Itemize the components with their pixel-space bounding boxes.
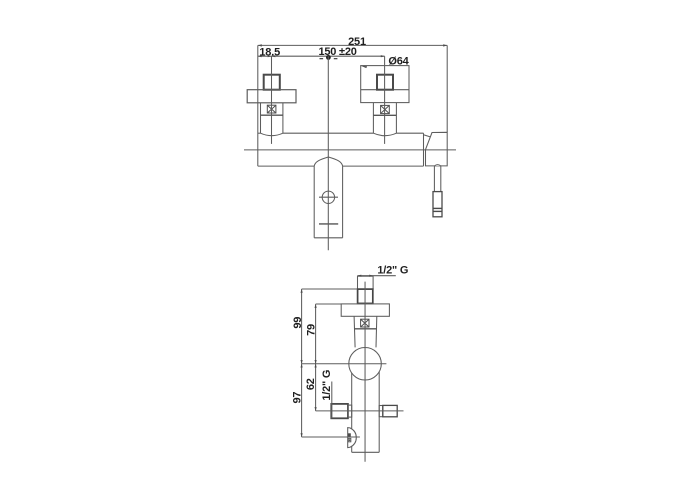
wall flange thick: [358, 289, 373, 303]
right outlet connector: [379, 406, 383, 417]
bar body (mixer horizontal body): [258, 45, 424, 166]
spout diverter circle: [322, 191, 334, 203]
outlet centerline: [316, 410, 404, 412]
dim 99: [301, 289, 358, 364]
side vertical centerline: [364, 282, 366, 462]
left handle body: [261, 103, 283, 136]
diverter crosshair: [319, 196, 338, 198]
dimension line 251: [258, 44, 447, 46]
center dot marker: [326, 55, 331, 60]
dimension line 18.5 / 150: [258, 55, 385, 57]
left outlet thick: [331, 404, 348, 418]
tolerance dash right: [334, 58, 338, 59]
svg-text:18.5: 18.5: [259, 47, 280, 59]
left handle centerline: [271, 56, 273, 144]
left handle flange: [247, 90, 296, 103]
extension line right (251): [446, 45, 448, 132]
spout lower tick line: [319, 223, 338, 225]
svg-text:99: 99: [292, 317, 304, 329]
svg-text:1/2" G: 1/2" G: [321, 370, 333, 401]
svg-text:62: 62: [305, 378, 317, 390]
side handle line: [354, 328, 376, 330]
svg-text:150 ±20: 150 ±20: [318, 46, 356, 58]
bar horizontal centerline: [244, 149, 456, 151]
handshower handle: [433, 192, 442, 217]
svg-text:1/2" G: 1/2" G: [377, 265, 408, 277]
left handle stem: [264, 75, 280, 90]
right handle body: [373, 103, 396, 136]
right handle body line: [373, 114, 396, 116]
body tube: [352, 372, 380, 453]
spout centerline: [327, 56, 329, 250]
side X-box: [361, 319, 369, 327]
svg-text:79: 79: [306, 324, 318, 336]
right escutcheon divider: [361, 89, 409, 91]
leader arrow O64: [361, 66, 367, 68]
right outlet: [383, 405, 397, 416]
spout tip crescent: [348, 428, 357, 448]
dim line 1/2 G: [358, 275, 396, 277]
side horizontal centerline (sphere): [302, 363, 387, 365]
aerator insert outline: [348, 438, 351, 441]
svg-text:97: 97: [292, 392, 304, 404]
left handle X-box: [267, 105, 276, 113]
side escutcheon: [341, 304, 389, 316]
right handle centerline: [384, 56, 386, 144]
handshower tube: [434, 165, 440, 192]
right handle stem: [377, 75, 393, 90]
shower holder (right end): [424, 132, 448, 166]
leader line 1/2G to outlet: [331, 382, 333, 419]
left outlet connector: [348, 405, 352, 417]
cartridge sphere: [349, 348, 382, 381]
dim 62: [315, 364, 317, 411]
dim 79: [315, 304, 342, 364]
spout tip extension line: [302, 436, 360, 438]
right handle X-box: [381, 105, 390, 113]
left handle body line: [261, 114, 283, 116]
right escutcheon square: [361, 66, 409, 103]
tolerance dash left: [320, 58, 324, 59]
spout (front view): [314, 157, 342, 238]
aerator insert dark: [348, 433, 351, 436]
side handle taper: [354, 316, 377, 347]
dim 97: [301, 364, 303, 437]
inlet nipple: [358, 276, 374, 289]
